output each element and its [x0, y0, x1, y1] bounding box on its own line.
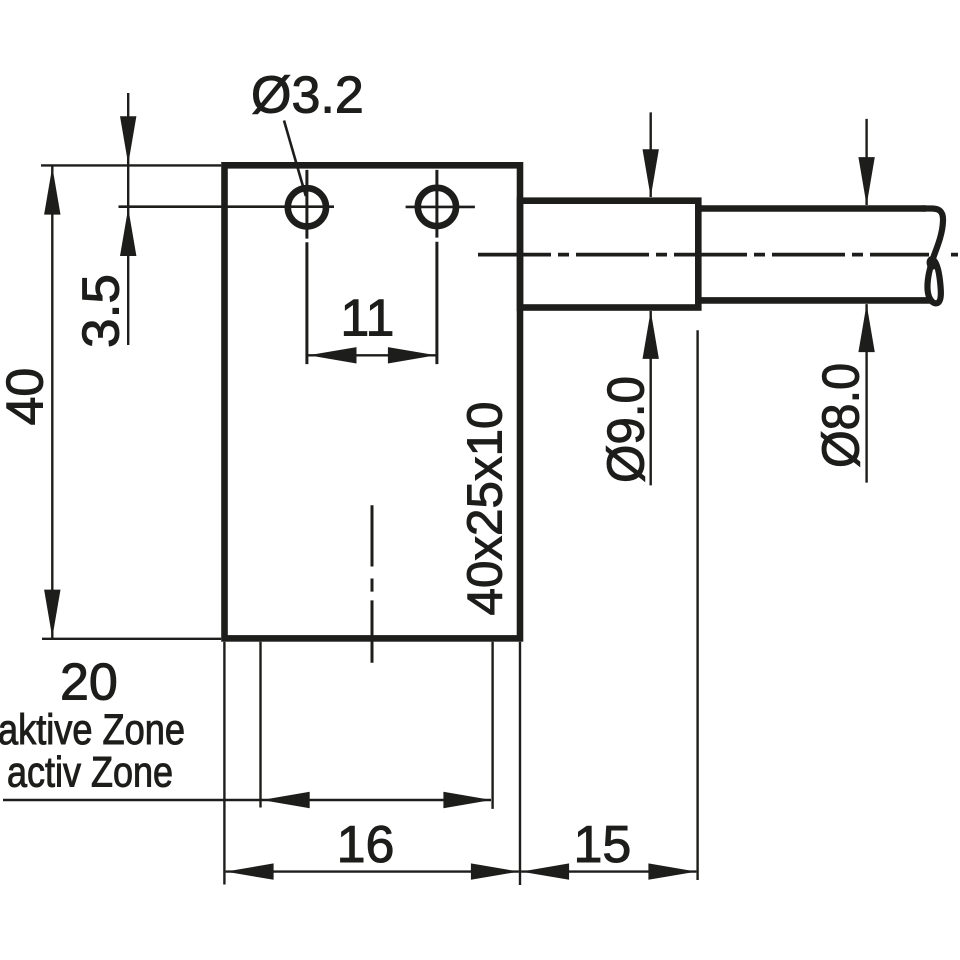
dim O9 line bottom — [650, 311, 652, 485]
active zone center mark — [371, 505, 374, 663]
dim 16 line — [226, 870, 519, 872]
dim O9 line top — [650, 112, 652, 197]
dim 11 text — [340, 290, 394, 348]
hole H1 vertical centerline — [305, 170, 308, 364]
dim 40 extension line bottom — [42, 638, 221, 640]
horizontal centerline through connector and cable — [478, 253, 958, 257]
svg-text:Ø3.2: Ø3.2 — [251, 67, 364, 125]
cable O8 top edge — [698, 205, 926, 212]
dim O8 line top — [865, 119, 867, 205]
dim 3.5 arrow down — [120, 116, 136, 164]
dim 11 line — [308, 354, 436, 356]
hole H1 horizontal centerline — [119, 205, 335, 208]
svg-text:Ø8.0: Ø8.0 — [813, 363, 871, 468]
dim O9 arrow up — [643, 311, 659, 359]
hole H2 horizontal centerline — [406, 206, 475, 209]
dim 16 arrow right — [471, 863, 519, 879]
dim 15 text — [573, 816, 631, 874]
dim O8 arrow up — [858, 304, 874, 352]
svg-text:20: 20 — [60, 654, 118, 712]
svg-text:activ Zone: activ Zone — [7, 748, 173, 796]
active zone arrow right — [443, 792, 491, 808]
active zone text english — [7, 748, 173, 796]
dim O9 arrow down — [643, 149, 659, 197]
dim O8 arrow down — [858, 157, 874, 205]
cable O8 bottom edge — [698, 297, 931, 304]
svg-text:15: 15 — [573, 816, 631, 874]
dim 11 arrow right — [388, 347, 436, 363]
cable break squiggle — [922, 208, 943, 303]
hole H1 circle — [288, 188, 326, 226]
dim 3.5 text — [73, 274, 131, 348]
dim 11 arrow left — [309, 347, 357, 363]
hole H2 vertical centerline — [435, 170, 438, 364]
dim 15 arrow left — [521, 863, 569, 879]
svg-text:Ø9.0: Ø9.0 — [598, 376, 656, 483]
label O3.2 — [251, 67, 364, 125]
hole H2 circle — [418, 188, 456, 226]
active zone arrow left — [262, 792, 310, 808]
sensor body 40x25 outline — [225, 165, 521, 638]
extension line below body right 16 — [519, 642, 521, 885]
dim 15 line — [521, 870, 696, 872]
dim 40 arrow up — [44, 167, 60, 215]
dim 16 text — [337, 816, 395, 874]
svg-text:aktive Zone: aktive Zone — [0, 706, 185, 754]
extension line below body left 16 — [223, 642, 225, 885]
svg-text:40x25x10: 40x25x10 — [459, 402, 513, 616]
extension line below body active zone left — [259, 642, 261, 808]
extension line 15 right — [696, 330, 698, 880]
active zone dim line — [3, 799, 491, 801]
dim 15 arrow right — [648, 863, 696, 879]
dim 40 extension line top — [41, 164, 221, 166]
dim O8 text — [813, 363, 871, 468]
dim 3.5 line — [127, 93, 129, 345]
svg-text:3.5: 3.5 — [73, 274, 131, 348]
dim 40 text — [0, 368, 55, 426]
connector sleeve O9 outline — [520, 201, 698, 308]
leader line O3.2 — [284, 121, 306, 197]
dim 40 line — [51, 166, 53, 638]
svg-text:40: 40 — [0, 368, 55, 426]
dim 40 arrow down — [44, 590, 60, 638]
active zone text german — [0, 706, 185, 754]
active zone text 20 — [60, 654, 118, 712]
svg-text:11: 11 — [340, 290, 394, 348]
dim 16 arrow left — [226, 863, 274, 879]
dim 3.5 arrow up — [120, 208, 136, 256]
svg-text:16: 16 — [337, 816, 395, 874]
extension line below body active zone right — [491, 642, 493, 809]
dim O9 text — [598, 376, 656, 483]
dim O8 line bottom — [865, 304, 867, 483]
body size text 40x25x10 — [459, 402, 513, 616]
